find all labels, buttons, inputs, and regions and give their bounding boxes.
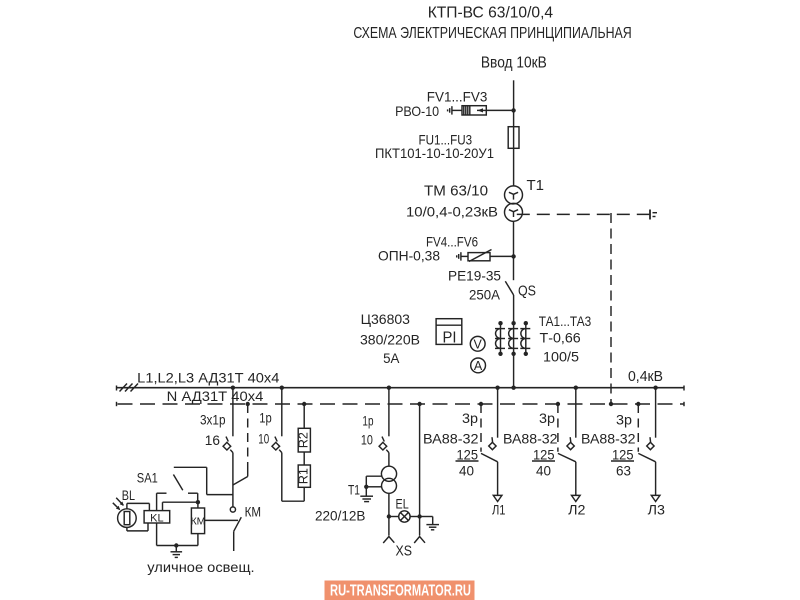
meter PI (counter Ц36803) <box>436 319 462 347</box>
label РВО-10 <box>395 103 439 119</box>
svg-text:Ц36803: Ц36803 <box>361 311 411 327</box>
label 220/12В <box>315 507 365 523</box>
node dots on busbars <box>231 386 658 407</box>
svg-text:220/12В: 220/12В <box>315 507 365 523</box>
wire KL top to КМ coil node <box>163 502 198 510</box>
socket XS <box>383 537 425 544</box>
label 5А <box>383 350 400 366</box>
node junction main/arrester <box>511 108 515 112</box>
label 16 <box>205 432 220 448</box>
node junction lamp left <box>387 514 391 518</box>
arrow load Л3 <box>651 495 660 501</box>
label Л2 <box>568 502 586 518</box>
svg-text:SA1: SA1 <box>137 470 158 486</box>
wire main line T1 to QS <box>513 221 515 280</box>
svg-text:3р: 3р <box>462 410 478 426</box>
svg-text:KL: KL <box>150 512 163 524</box>
label 63 (Л3) <box>616 463 631 479</box>
svg-text:Л3: Л3 <box>648 502 666 518</box>
svg-text:250А: 250А <box>469 286 501 302</box>
arrow load Л2 <box>572 495 581 501</box>
breaker SF2 1р 10 (heater branch) <box>272 388 282 502</box>
wire N-pole dashed link of street breaker <box>233 404 248 485</box>
svg-text:EL: EL <box>396 496 409 512</box>
wire neutral link dashed vertical <box>610 213 612 402</box>
svg-text:Т-0,66: Т-0,66 <box>540 330 581 346</box>
lamp EL <box>389 511 420 522</box>
wire neutral from N bus to socket <box>419 404 421 536</box>
svg-text:3р: 3р <box>616 412 632 428</box>
label 100/5 <box>543 348 579 364</box>
wire SA1 right contact to node above КМ coil <box>197 493 199 502</box>
breaker QF2 ВА88-32 (feeder Л2) <box>558 388 576 496</box>
label Т-0,66 <box>540 330 581 346</box>
svg-text:10: 10 <box>361 432 373 448</box>
label T1 (small transformer) <box>348 481 360 497</box>
current transformer TA2 <box>508 321 518 356</box>
svg-text:100/5: 100/5 <box>543 348 579 364</box>
node Ввод 10кВ label <box>481 54 547 71</box>
node junction main/ОПН <box>511 254 515 258</box>
svg-text:ВА88-32: ВА88-32 <box>503 431 558 447</box>
label FV4...FV6 <box>426 233 478 249</box>
label 380/220В <box>360 331 420 347</box>
ground (transformer T1) <box>360 496 373 501</box>
wire BL bottom to KL <box>127 523 148 531</box>
photocell BL <box>113 498 136 528</box>
label BL <box>122 487 135 503</box>
wire heater bottom link <box>282 487 304 501</box>
wire T1 screen taps to ground <box>364 476 382 496</box>
wire transformer neutral (dashed) to chassis <box>517 210 657 220</box>
label 3р (Л1) <box>462 410 478 426</box>
label ОПН-0,38 <box>378 248 440 264</box>
label QS <box>518 283 536 300</box>
svg-text:40: 40 <box>536 463 551 479</box>
label 1р (heater) <box>259 409 272 425</box>
label Л1 <box>492 502 506 518</box>
svg-text:5А: 5А <box>383 350 400 366</box>
label 10 (transformer) <box>361 432 373 448</box>
transformer T1 220/12V <box>381 466 396 493</box>
svg-text:T1: T1 <box>527 177 545 194</box>
label 0,4кВ <box>628 369 663 385</box>
svg-text:Л1: Л1 <box>492 502 506 518</box>
breaker QF1 ВА88-32 (feeder Л1) <box>481 388 498 496</box>
label 3р (Л3) <box>616 412 632 428</box>
svg-text:QS: QS <box>518 283 536 300</box>
svg-text:BL: BL <box>122 487 135 503</box>
svg-text:RU-TRANSFORMATOR.RU: RU-TRANSFORMATOR.RU <box>330 583 471 600</box>
svg-text:КМ: КМ <box>245 504 261 520</box>
svg-text:PI: PI <box>443 329 457 346</box>
switch SA1 <box>157 467 233 494</box>
svg-text:1р: 1р <box>259 409 272 425</box>
breaker QF3 ВА88-32 (feeder Л3) <box>638 388 655 496</box>
wire ground rail <box>157 545 198 547</box>
svg-text:16: 16 <box>205 432 220 448</box>
arrester FV4...FV6 ОПН-0,38 <box>457 250 514 262</box>
label ТМ 63/10 <box>424 183 488 199</box>
title СХЕМА ЭЛЕКТРИЧЕСКАЯ ПРИНЦИПИАЛЬНАЯ <box>353 25 631 42</box>
node junction lamp right <box>417 514 421 518</box>
busbar L1,L2,L3 0.4kV <box>117 384 685 392</box>
wire T1 secondary down <box>388 493 390 535</box>
svg-text:10/0,4-0,23кВ: 10/0,4-0,23кВ <box>406 203 498 219</box>
transformer T1 (power 63kVA) <box>505 186 523 221</box>
svg-text:XS: XS <box>396 542 413 559</box>
label 40 (Л1) <box>459 463 474 479</box>
current transformer TA1 <box>495 321 505 356</box>
wire N-pole dashed link QF3 <box>637 404 639 452</box>
label ТА1...ТА3 <box>539 313 592 329</box>
resistor R2 <box>297 428 311 452</box>
label РЕ19-35 <box>448 268 501 284</box>
label FV1...FV3 <box>427 88 488 104</box>
label 125 (Л2) <box>532 446 555 462</box>
label Ц36803 <box>361 311 411 327</box>
svg-text:40: 40 <box>459 463 474 479</box>
label 3р (Л2) <box>539 410 555 426</box>
svg-text:ТМ 63/10: ТМ 63/10 <box>424 183 488 199</box>
disconnector QS РЕ19-35 <box>505 281 513 388</box>
svg-text:ВА88-32: ВА88-32 <box>581 431 636 447</box>
watermark RU-TRANSFORMATOR.RU <box>325 581 475 600</box>
svg-text:СХЕМА ЭЛЕКТРИЧЕСКАЯ ПРИНЦИПИАЛ: СХЕМА ЭЛЕКТРИЧЕСКАЯ ПРИНЦИПИАЛЬНАЯ <box>353 25 631 42</box>
contact КМ (street lighting) <box>205 507 242 551</box>
resistor R1 <box>297 465 311 487</box>
wire R1-R2 <box>303 452 305 465</box>
label L1,L2,L3 АД31Т 40x4 <box>137 370 279 386</box>
svg-text:Ввод 10кВ: Ввод 10кВ <box>481 54 547 71</box>
svg-text:уличное освещ.: уличное освещ. <box>147 559 254 575</box>
svg-text:T1: T1 <box>348 481 360 497</box>
node junction ground rail <box>174 543 178 547</box>
wire N-pole dashed link QF1 <box>480 404 482 452</box>
svg-text:0,4кВ: 0,4кВ <box>628 369 663 385</box>
label SA1 <box>137 470 158 486</box>
contactor coil КМ <box>191 502 206 533</box>
label 125 (Л3) <box>611 446 634 462</box>
node junction above КМ coil <box>196 500 200 504</box>
meter V voltmeter <box>470 336 485 351</box>
svg-text:R1: R1 <box>297 468 311 484</box>
label ВА88-32 (Л2) <box>503 431 558 447</box>
label 250А <box>469 286 501 302</box>
svg-text:10: 10 <box>258 431 269 447</box>
svg-text:R2: R2 <box>297 432 311 448</box>
wire КМ coil bottom to ground rail <box>197 534 199 546</box>
wire KL bottom to ground rail <box>156 523 158 546</box>
label ПКТ101-10-10-20У1 <box>375 145 494 161</box>
label 125 (Л1) <box>456 446 479 462</box>
wire N-pole dashed link QF2 <box>557 404 559 452</box>
breaker SF1 3x1р 16 (street light branch) <box>223 388 233 507</box>
label FU1...FU3 <box>419 131 473 147</box>
label 1р (transformer) <box>362 413 373 429</box>
svg-text:ОПН-0,38: ОПН-0,38 <box>378 248 440 264</box>
busbar N (dashed) <box>117 402 685 406</box>
svg-text:125: 125 <box>612 446 634 462</box>
label T1 <box>527 177 545 194</box>
label N АД31Т 40x4 <box>167 388 264 404</box>
svg-text:РВО-10: РВО-10 <box>395 103 439 119</box>
wire BL top to KL <box>127 503 149 510</box>
svg-text:КТП-ВС 63/10/0,4: КТП-ВС 63/10/0,4 <box>428 4 553 21</box>
breaker SF3 1р 10 (lighting transformer branch) <box>379 388 389 467</box>
svg-text:Л2: Л2 <box>568 502 586 518</box>
fuse FU1...FU3 ПКТ101 <box>508 127 519 149</box>
label Л3 <box>648 502 666 518</box>
svg-text:ВА88-32: ВА88-32 <box>423 431 479 447</box>
meter A ammeter <box>471 358 486 373</box>
current transformer TA3 <box>520 321 530 356</box>
label 10 (heater) <box>258 431 269 447</box>
svg-text:РЕ19-35: РЕ19-35 <box>448 268 501 284</box>
label 40 (Л2) <box>536 463 551 479</box>
label КМ (contact) <box>245 504 261 520</box>
label ВА88-32 (Л3) <box>581 431 636 447</box>
wire main incoming 10kV line (top segment) <box>513 80 515 186</box>
svg-text:125: 125 <box>457 446 479 462</box>
svg-text:FV1...FV3: FV1...FV3 <box>427 88 488 104</box>
svg-text:380/220В: 380/220В <box>360 331 420 347</box>
label 3x1р <box>200 412 226 428</box>
ground (lamp circuit) <box>426 525 439 530</box>
label уличное освещ. <box>147 559 254 575</box>
label XS <box>396 542 413 559</box>
wire lamp neutral to ground <box>420 517 433 525</box>
relay KL <box>144 511 170 525</box>
svg-text:125: 125 <box>533 446 555 462</box>
wire SA1 left contact to relay KL <box>156 493 158 510</box>
svg-text:L1,L2,L3 АД31Т 40x4: L1,L2,L3 АД31Т 40x4 <box>137 370 279 386</box>
label ВА88-32 (Л1) <box>423 431 479 447</box>
svg-text:63: 63 <box>616 463 631 479</box>
label 10/0,4-0,23кВ <box>406 203 498 219</box>
svg-text:ПКТ101-10-10-20У1: ПКТ101-10-10-20У1 <box>375 145 494 161</box>
svg-text:V: V <box>474 337 483 351</box>
label EL <box>396 496 409 512</box>
svg-text:1р: 1р <box>362 413 373 429</box>
svg-text:A: A <box>474 359 483 373</box>
title КТП-ВС 63/10/0,4 <box>428 4 553 21</box>
svg-text:3x1р: 3x1р <box>200 412 226 428</box>
svg-text:ТА1...ТА3: ТА1...ТА3 <box>539 313 592 329</box>
svg-text:3р: 3р <box>539 410 555 426</box>
ground (control circuit) <box>171 546 183 558</box>
svg-text:N АД31Т 40x4: N АД31Т 40x4 <box>167 388 264 404</box>
arrester FV1...FV3 РВО-10 <box>448 106 514 115</box>
wire R2 to N bus <box>303 404 305 428</box>
svg-text:КМ: КМ <box>191 516 206 528</box>
arrow load Л1 <box>493 495 502 501</box>
